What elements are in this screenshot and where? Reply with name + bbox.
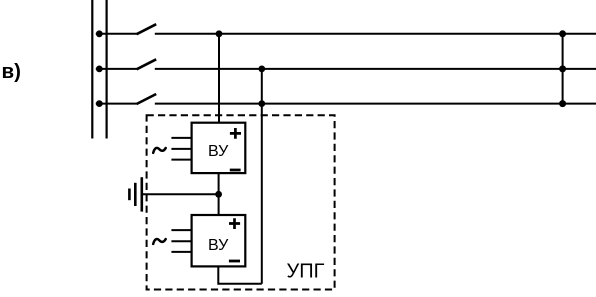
junction dot phase B / riser — [258, 66, 265, 73]
ac symbol ~ of ВУ2 — [153, 239, 166, 244]
junction dot phase A on bus — [96, 30, 103, 37]
switch blade phase A — [137, 24, 157, 34]
ac symbol ~ of ВУ1 — [153, 148, 166, 153]
junction dot tie / phase B — [559, 65, 566, 72]
busbar 1 — [91, 0, 93, 139]
wire phase B left segment — [96, 68, 137, 70]
ac input wires of ВУ1 — [171, 138, 191, 160]
junction dot phase B on bus — [96, 66, 103, 73]
minus terminal mark ВУ1 — [230, 169, 241, 172]
ground — [141, 177, 144, 211]
wire phase B right segment — [155, 68, 596, 70]
plus terminal mark ВУ1 — [230, 128, 241, 139]
busbar 2 — [105, 0, 107, 139]
tie wire right — [562, 34, 564, 104]
junction dot phase C / riser — [258, 100, 265, 107]
svg-text:ВУ: ВУ — [208, 237, 229, 254]
junction dot dc link / ground wire — [215, 191, 222, 198]
svg-text:УПГ: УПГ — [287, 260, 325, 282]
wire dc link ВУ1 minus to ВУ2 plus — [218, 173, 220, 215]
wire riser from ВУ2 output — [261, 69, 263, 284]
plus terminal mark ВУ2 — [229, 218, 240, 229]
switch blade phase B — [137, 59, 157, 69]
svg-text:ВУ: ВУ — [208, 143, 229, 160]
junction dot tie / phase C — [559, 100, 566, 107]
wire drop to rectifier ВУ1 — [218, 34, 220, 123]
minus terminal mark ВУ2 — [229, 260, 240, 263]
rectifier unit ВУ1 box — [192, 123, 246, 173]
wire phase A right segment — [155, 33, 596, 35]
rectifier unit ВУ2 box — [192, 215, 246, 266]
wire phase A left segment — [96, 33, 137, 35]
ac input wires of ВУ2 — [171, 230, 191, 252]
junction dot tie / phase A — [559, 30, 566, 37]
wire ВУ2 output to riser — [218, 266, 261, 283]
wire ground to dc link — [142, 193, 219, 195]
dashed enclosure УПГ — [147, 115, 335, 289]
wire phase C left segment — [96, 103, 137, 105]
junction dot phase C on bus — [96, 100, 103, 107]
svg-text:в): в) — [2, 60, 21, 83]
switch blade phase C — [137, 94, 157, 104]
junction dot phase A / ВУ1 drop — [216, 30, 223, 37]
wire phase C right segment — [155, 103, 596, 105]
